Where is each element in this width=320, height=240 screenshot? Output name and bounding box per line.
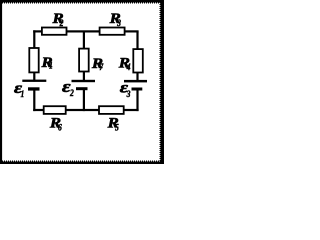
svg-text:4: 4 [126, 63, 131, 73]
label R1 [40, 55, 52, 71]
svg-text:3: 3 [126, 90, 131, 100]
battery E1 [22, 80, 46, 91]
resistor R2 [42, 28, 67, 35]
svg-text:2: 2 [59, 19, 64, 29]
frame left bar [0, 0, 2, 164]
frame right bar [160, 0, 164, 164]
resistor R7 [79, 49, 89, 72]
svg-text:1: 1 [21, 89, 25, 99]
battery E2 [72, 80, 96, 90]
resistor R6 [44, 106, 66, 114]
label R6 [49, 115, 63, 132]
battery E3 [124, 80, 147, 91]
wire middle branch lower [83, 89, 85, 112]
label R4 [118, 55, 131, 72]
label E1 [14, 79, 24, 99]
resistor R4 [133, 49, 143, 72]
label R7 [91, 56, 104, 72]
frame top bar [0, 0, 164, 3]
wire left branch lower [33, 89, 35, 112]
frame bottom bar [0, 161, 164, 164]
label R5 [107, 115, 119, 132]
resistor R3 [100, 28, 125, 35]
resistor R1 [29, 48, 38, 72]
svg-text:2: 2 [69, 88, 74, 98]
wire left branch upper [33, 30, 35, 81]
wire top rail [33, 30, 138, 32]
label E3 [120, 78, 131, 99]
label R3 [109, 11, 121, 28]
resistor R5 [99, 106, 124, 114]
svg-text:5: 5 [115, 123, 119, 133]
svg-text:1: 1 [49, 61, 53, 71]
label R2 [51, 11, 63, 29]
label E2 [62, 78, 74, 98]
wire right branch lower [136, 89, 138, 112]
svg-text:3: 3 [116, 19, 121, 29]
wire right branch upper [136, 32, 138, 82]
wire middle branch upper [83, 32, 85, 82]
wire bottom rail [33, 109, 138, 111]
